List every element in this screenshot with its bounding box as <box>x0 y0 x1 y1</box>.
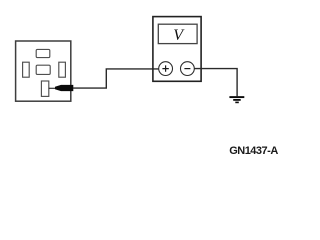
voltmeter negative terminal <box>181 62 195 76</box>
svg-text:V: V <box>173 27 185 44</box>
connector cavity: left <box>23 62 30 77</box>
test probe <box>49 85 74 91</box>
voltmeter positive terminal <box>159 62 173 76</box>
connector cavity: center <box>36 65 50 74</box>
voltmeter V1 body <box>153 17 201 82</box>
connector C1 (relay socket) body <box>16 41 71 101</box>
ground G1 <box>229 97 244 102</box>
voltmeter display <box>158 24 197 43</box>
connector cavity: top <box>36 49 50 57</box>
wire: probe to voltmeter positive terminal <box>73 69 159 88</box>
connector cavity: bottom (pin under test) <box>41 81 48 96</box>
svg-text:GN1437-A: GN1437-A <box>229 145 278 157</box>
connector cavity: right <box>59 62 66 77</box>
wire: voltmeter negative terminal to ground <box>194 69 237 97</box>
